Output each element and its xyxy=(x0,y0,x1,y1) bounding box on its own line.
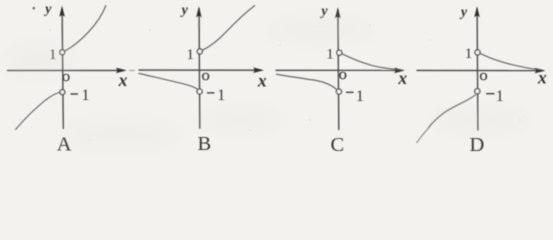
svg-text:1: 1 xyxy=(496,88,504,105)
svg-text:B: B xyxy=(198,133,212,155)
svg-text:O: O xyxy=(62,73,70,84)
svg-text:x: x xyxy=(118,70,128,90)
svg-text:1: 1 xyxy=(465,46,473,62)
svg-text:1: 1 xyxy=(186,47,194,63)
svg-text:O: O xyxy=(480,72,488,83)
svg-text:O: O xyxy=(202,72,210,83)
svg-text:x: x xyxy=(257,70,267,90)
svg-text:x: x xyxy=(397,68,407,88)
svg-text:1: 1 xyxy=(217,87,225,104)
svg-text:1: 1 xyxy=(82,87,90,104)
svg-text:x: x xyxy=(537,68,547,88)
svg-text:1: 1 xyxy=(326,46,334,62)
svg-text:D: D xyxy=(469,134,484,156)
svg-text:O: O xyxy=(339,71,347,82)
svg-text:y: y xyxy=(319,4,328,19)
svg-text:1: 1 xyxy=(356,88,364,105)
svg-text:C: C xyxy=(330,134,344,156)
svg-text:y: y xyxy=(43,2,52,17)
svg-text:y: y xyxy=(459,5,468,20)
svg-text:y: y xyxy=(180,3,189,18)
